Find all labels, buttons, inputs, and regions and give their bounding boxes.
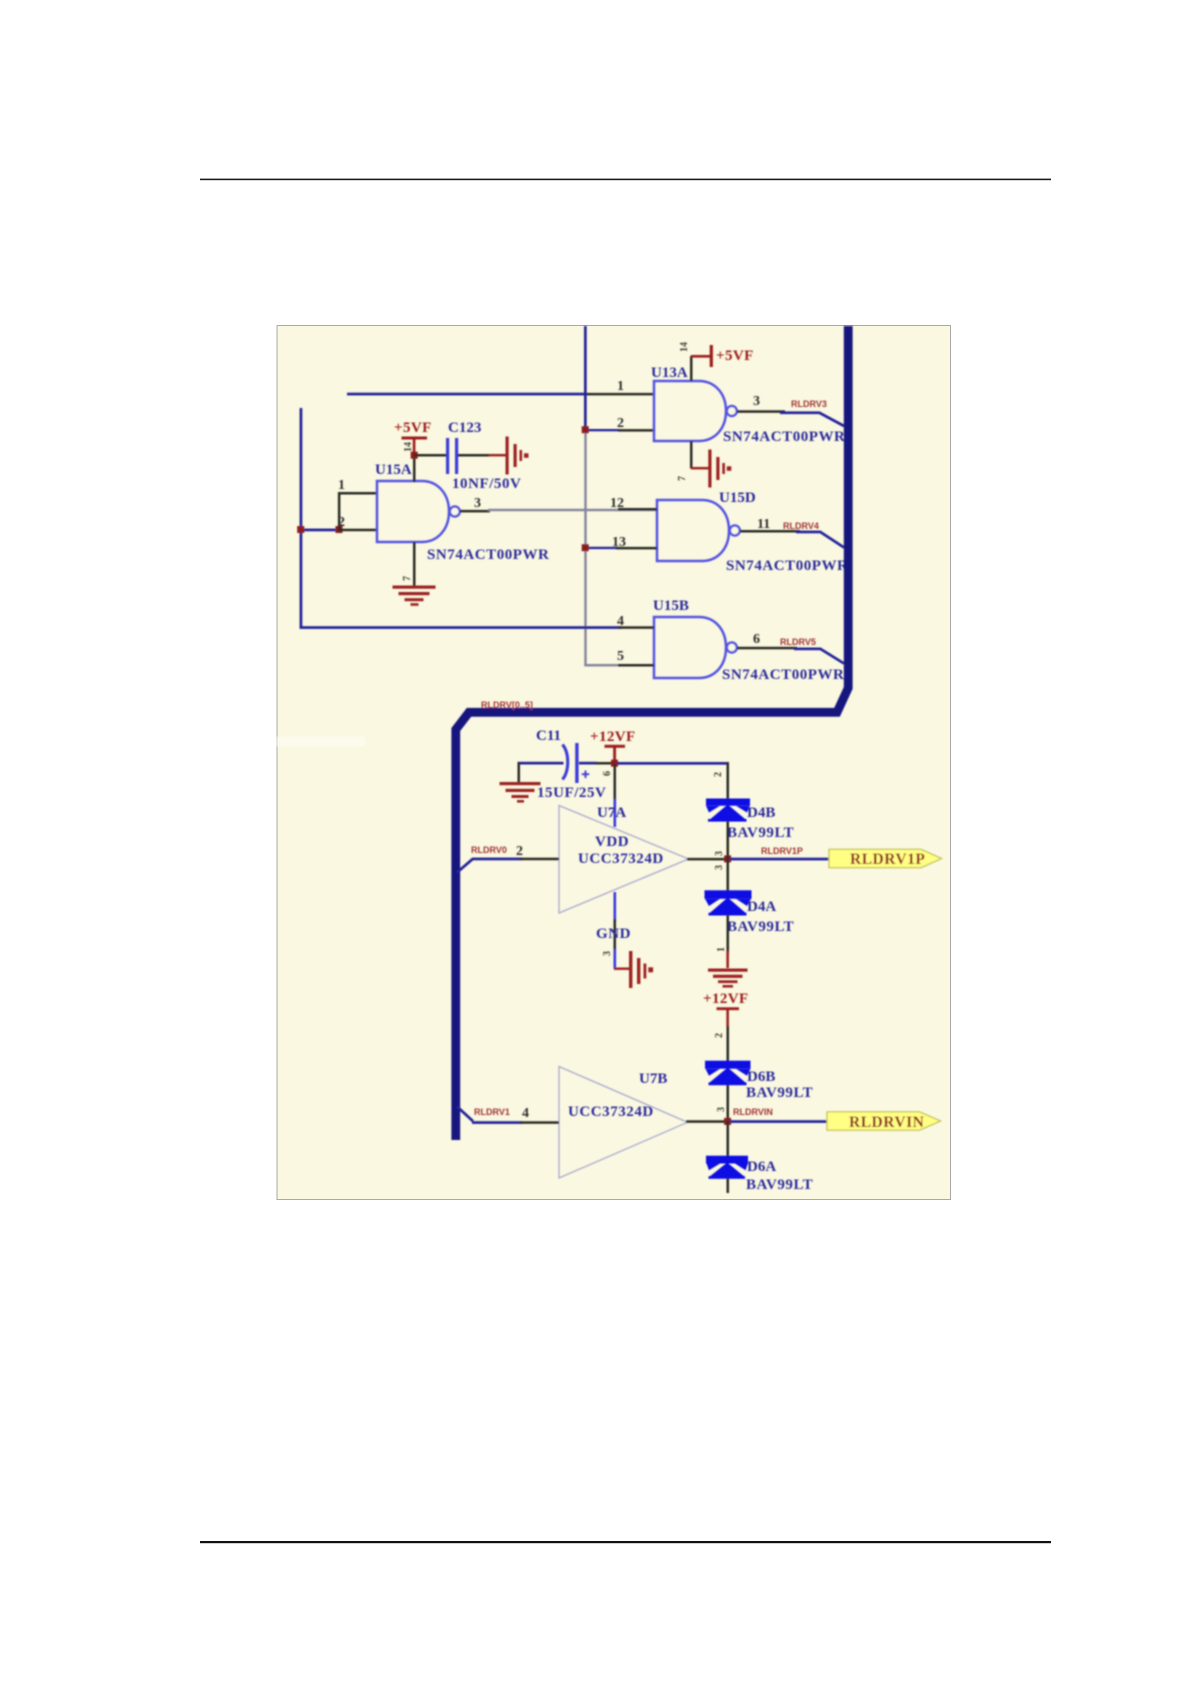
svg-text:1: 1: [338, 478, 345, 493]
top horizontal rule: [200, 179, 1051, 181]
power +5VF at U13A pin 14 (bar style): [691, 355, 710, 358]
wire: output junction to D4A: [727, 859, 730, 892]
svg-text:3: 3: [714, 865, 725, 870]
svg-text:D6A: D6A: [747, 1159, 776, 1175]
svg-text:7: 7: [402, 576, 413, 581]
diode D6A: [706, 1156, 748, 1179]
svg-text:+12VF: +12VF: [590, 729, 636, 745]
wire: RLDRV1 bus entry diagonal: [457, 1107, 473, 1122]
svg-text:U13A: U13A: [651, 365, 688, 381]
svg-text:3: 3: [753, 394, 760, 409]
svg-text:7: 7: [677, 476, 688, 481]
wire: +12VF to D6B: [727, 1026, 730, 1061]
svg-text:2: 2: [617, 416, 624, 431]
wire: U15B output net to bus: [794, 648, 821, 651]
svg-text:2: 2: [714, 1033, 725, 1038]
svg-text:2: 2: [516, 844, 523, 859]
wire: C123 right plate to power ground: [458, 454, 489, 457]
wire: U15D output stub: [740, 530, 800, 533]
svg-text:RLDRV0: RLDRV0: [471, 845, 507, 855]
wire: U13A pin 2 stub: [618, 429, 655, 432]
wire: RLDRV1 net to U7B input: [472, 1121, 522, 1124]
wire: U13A pin 14 stub: [690, 356, 693, 381]
wire: U13A pin 1 stub: [585, 393, 655, 396]
svg-text:RLDRV5: RLDRV5: [780, 637, 816, 647]
svg-text:GND: GND: [596, 926, 631, 942]
svg-text:SN74ACT00PWR: SN74ACT00PWR: [726, 558, 848, 574]
wire: U15A pin 2 net from left vertical: [300, 529, 340, 532]
wire: RLDRV0 bus entry diagonal: [457, 859, 473, 873]
svg-text:11: 11: [757, 517, 770, 532]
svg-text:RLDRV[0..5]: RLDRV[0..5]: [481, 700, 533, 710]
wire: U15D pin 13 stub: [616, 547, 657, 550]
node junction at left vertical / pin2: [297, 526, 304, 533]
node junction RLDRVIN: [724, 1118, 731, 1125]
svg-text:U15B: U15B: [653, 598, 689, 614]
wire: U15D pin 12 stub: [618, 508, 657, 511]
wire: RLDRV4 diagonal bus entry: [820, 532, 844, 548]
capacitor C11 (polarized): [563, 745, 568, 780]
wire: U7B output stub: [686, 1120, 725, 1123]
wire: U7A VDD pin: [614, 764, 617, 801]
capacitor C123: [446, 438, 449, 474]
buffer U7B triangle: [559, 1067, 688, 1179]
svg-text:+5VF: +5VF: [394, 420, 432, 436]
wire: RLDRV3 diagonal bus entry: [819, 413, 844, 426]
wire: vertical net at x585 lower (gray): [584, 430, 586, 666]
svg-text:C11: C11: [536, 728, 561, 744]
svg-text:U15D: U15D: [719, 490, 756, 506]
nand gate U15A: [377, 481, 449, 542]
svg-text:6: 6: [602, 771, 613, 776]
svg-text:RLDRVIN: RLDRVIN: [733, 1107, 773, 1117]
ground at C11: [500, 782, 541, 803]
svg-text:+5VF: +5VF: [716, 348, 754, 364]
wire: D6A to sheet edge: [727, 1178, 730, 1193]
svg-text:3: 3: [602, 951, 613, 956]
wire: VDD net to diode branch corner: [617, 762, 729, 765]
node junction RLDRV1P: [724, 855, 731, 862]
svg-text:D4B: D4B: [747, 805, 775, 821]
svg-text:5: 5: [617, 649, 624, 664]
buffer U7A triangle: [559, 806, 689, 914]
ground at U15A pin 7: [393, 586, 436, 606]
wire: RLDRVIN net to port: [730, 1120, 827, 1123]
wire: vertical net at x585 upper (to top border): [584, 326, 587, 431]
wire: U13A pin 2 net segment: [585, 429, 620, 431]
nand gate U15B: [654, 617, 726, 678]
wire: U15B output stub: [737, 647, 797, 650]
svg-text:14: 14: [679, 342, 690, 352]
wire: U15B pin 5 stub: [618, 664, 654, 667]
svg-text:+12VF: +12VF: [703, 991, 749, 1007]
svg-text:3: 3: [714, 851, 725, 856]
wire: U13A pin 7 stub: [690, 441, 693, 469]
svg-text:1: 1: [716, 947, 727, 952]
wire: U15B pin 5 elbow from gray vertical: [584, 664, 620, 666]
wire: long horizontal net to U13A pin 1: [347, 393, 585, 396]
wire: junction to C123 left plate: [414, 454, 447, 457]
svg-text:2: 2: [338, 515, 345, 530]
wire: U7A output stub: [687, 858, 725, 861]
wire: U7B input pin stub: [520, 1121, 559, 1124]
wire: U15A pin 2 stub: [338, 529, 377, 532]
svg-text:D6B: D6B: [747, 1069, 775, 1085]
svg-text:2: 2: [713, 772, 724, 777]
svg-text:SN74ACT00PWR: SN74ACT00PWR: [722, 667, 844, 683]
wire: C11 right plate to +12VF junction: [579, 762, 597, 765]
wire: U15A.3 to U15D.12 (gray): [488, 509, 657, 511]
wire: D6B to RLDRVIN junction: [727, 1085, 730, 1121]
power +12VF at C11: [605, 745, 626, 748]
wire: U15A pin 7 stub: [413, 542, 416, 586]
wire: diode branch vertical from VDD net corner to D4B: [727, 762, 730, 800]
faint white artifact band: [261, 737, 365, 747]
diode D4B: [706, 799, 750, 822]
svg-text:6: 6: [753, 632, 760, 647]
wire: RLDRV5 diagonal bus entry: [820, 649, 844, 664]
node junction at x585 pin2: [582, 426, 589, 433]
svg-text:RLDRV4: RLDRV4: [783, 521, 819, 531]
wire: U15A pin 1 stub: [338, 492, 377, 495]
svg-text:15UF/25V: 15UF/25V: [537, 785, 606, 801]
power +12VF bar feeding lower section: [717, 1007, 740, 1010]
svg-text:RLDRVIN: RLDRVIN: [849, 1114, 924, 1131]
nand gate U15D: [657, 500, 729, 561]
wire: U15B pin 4 stub: [618, 626, 654, 629]
wire: U7A input pin stub: [520, 858, 559, 861]
wire: left vertical net: [300, 408, 303, 628]
nand gate U13A: [654, 381, 726, 441]
svg-text:BAV99LT: BAV99LT: [727, 825, 794, 841]
node junction at x585 pin13: [582, 544, 589, 551]
wire: RLDRVIN junction to D6A: [727, 1121, 730, 1156]
diode D4A: [705, 890, 752, 915]
svg-text:RLDRV1P: RLDRV1P: [761, 846, 803, 856]
svg-text:RLDRV1P: RLDRV1P: [850, 851, 925, 868]
svg-text:RLDRV1: RLDRV1: [474, 1107, 510, 1117]
svg-text:C123: C123: [448, 420, 481, 436]
power +5VF at U15A: [402, 437, 428, 440]
wire: U13A output net to bus: [780, 411, 820, 414]
wire: net from left vertical to U15B pin 4: [300, 626, 622, 629]
plus mark of C11: [582, 771, 589, 779]
svg-text:10NF/50V: 10NF/50V: [452, 476, 521, 492]
svg-text:U7A: U7A: [597, 805, 626, 821]
svg-text:VDD: VDD: [595, 834, 629, 850]
wire: RLDRV0 net to U7A input: [472, 858, 522, 861]
svg-text:SN74ACT00PWR: SN74ACT00PWR: [427, 547, 549, 563]
diode D6B: [705, 1061, 751, 1086]
svg-text:3: 3: [716, 1107, 727, 1112]
wire: vertical tie between U15A pins 1 and 2: [338, 492, 341, 530]
svg-text:SN74ACT00PWR: SN74ACT00PWR: [723, 429, 845, 445]
svg-text:BAV99LT: BAV99LT: [746, 1177, 813, 1193]
port RLDRVIN: [827, 1112, 941, 1130]
node junction at pin1-pin2 tie: [336, 526, 343, 533]
wire: U15A output stub: [460, 510, 490, 513]
svg-text:3: 3: [474, 496, 481, 511]
power ground at U13A pin 7 (bar style): [691, 467, 709, 469]
svg-text:BAV99LT: BAV99LT: [727, 919, 794, 935]
wire: U13A output stub: [737, 410, 785, 413]
wire: U15D pin 13 net segment: [585, 547, 618, 549]
svg-text:RLDRV3: RLDRV3: [791, 399, 827, 409]
wire: RLDRV1P net to port: [730, 858, 829, 861]
svg-text:U15A: U15A: [375, 462, 412, 478]
svg-text:4: 4: [522, 1106, 529, 1121]
bus RLDRV[0..5]: [456, 326, 848, 1140]
power ground symbol of +12VF port: [708, 969, 748, 988]
svg-text:14: 14: [403, 442, 414, 452]
svg-text:U7B: U7B: [639, 1071, 667, 1087]
svg-text:1: 1: [617, 379, 624, 394]
wire: ground elbow to C11 left plate: [518, 762, 564, 765]
bottom horizontal rule: [200, 1541, 1051, 1543]
node junction at VDD net: [611, 760, 618, 767]
wire: U15A pin 14 stub: [413, 455, 416, 482]
svg-text:UCC37324D: UCC37324D: [578, 851, 664, 867]
svg-text:UCC37324D: UCC37324D: [568, 1104, 654, 1120]
svg-text:D4A: D4A: [747, 899, 776, 915]
wire: D4A to +12VF ground: [727, 915, 730, 953]
schematic sheet background: [277, 326, 951, 1200]
svg-text:BAV99LT: BAV99LT: [746, 1085, 813, 1101]
wire: U15D output net to bus: [796, 531, 821, 534]
port RLDRV1P: [829, 849, 942, 867]
wire: U7A GND pin: [614, 892, 617, 921]
node junction at U15A pin14 / C123: [411, 452, 418, 459]
power ground at U7A GND (bar style): [614, 968, 629, 970]
power ground (bar style) right of C123: [506, 437, 529, 475]
wire: D4B to output junction: [727, 821, 730, 859]
